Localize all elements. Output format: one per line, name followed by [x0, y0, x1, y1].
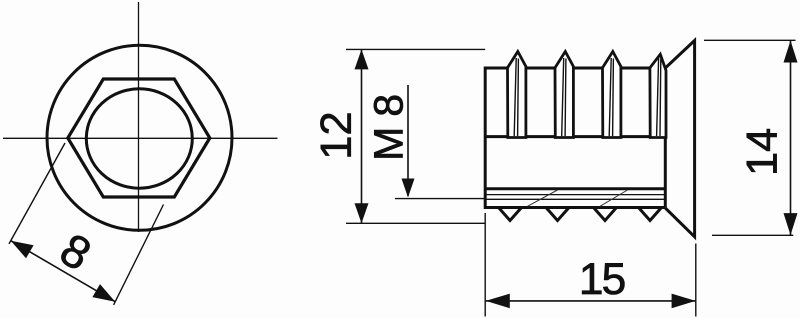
dim 14: value label 14 [747, 129, 777, 173]
left view: hexagon (hex socket) [68, 79, 210, 197]
dim 15: right extension line [695, 244, 697, 317]
dim 15: left extension line [484, 213, 486, 317]
thread crest spike 1 [508, 52, 526, 138]
insert body collar line [485, 187, 665, 190]
left view: vertical centerline [138, 2, 140, 232]
thin helix line 1 in collar band [528, 190, 558, 206]
dim 14: top extension line [704, 39, 796, 41]
left view: inner circle (thread hole) [86, 89, 192, 188]
dim 15: dimension line [486, 300, 696, 302]
dim 8: extension line 2 (from hex flat) [114, 205, 164, 305]
dim 14: arrowhead down [784, 213, 798, 235]
collar thin line 1 [485, 194, 665, 196]
dim 8: arrowhead left [11, 241, 34, 259]
dim 12: arrowhead down [355, 203, 369, 223]
M8 leader line [407, 85, 409, 196]
bottom thread tooth 2 [546, 208, 569, 221]
dim 12: dimension line [361, 49, 363, 223]
dim 12: value label 12 [320, 114, 350, 157]
dim 8: dimension line [11, 241, 115, 302]
insert body left edge [484, 67, 487, 210]
dim 14: bottom extension line [712, 234, 793, 236]
dim 15: arrowhead right [672, 294, 696, 309]
dim 14: arrowhead up [784, 41, 798, 63]
M8 thread label [374, 96, 403, 158]
dim 8: extension line 1 (from hex flat) [9, 143, 65, 244]
dim 12: top extension line [346, 48, 485, 50]
dim 15: arrowhead left [486, 294, 510, 309]
insert body right edge [664, 68, 667, 208]
left view: outer circle (flange dia) [47, 45, 232, 230]
bottom thread tooth 1 [499, 208, 522, 221]
insert body bottom line [485, 206, 665, 209]
bottom thread tooth 3 [594, 208, 617, 221]
dim 8: value label 8 [58, 232, 93, 271]
countersunk flange head [665, 41, 694, 237]
thin helix line 2 in collar band [600, 190, 628, 206]
dim 14: dimension line [790, 40, 792, 235]
insert body top line [485, 67, 665, 70]
thread crest spike 2 [555, 52, 573, 138]
dim 12: bottom extension line [346, 222, 486, 224]
left view: horizontal centerline [3, 137, 278, 139]
dim 12: arrowhead up [355, 49, 369, 69]
dim 8: arrowhead right [92, 284, 115, 302]
M8 pointed extension line [395, 198, 485, 200]
bottom thread tooth 4 [639, 208, 662, 221]
insert body mid line (thread root) [485, 135, 665, 138]
thread crest spike 4 (at body corner) [650, 54, 666, 137]
dim 15: value label 15 [582, 263, 624, 294]
thread crest spike 3 [603, 52, 621, 138]
collar thin line 2 (M8 pointed line inside body) [485, 198, 665, 200]
M8 leader arrowhead [402, 179, 415, 198]
